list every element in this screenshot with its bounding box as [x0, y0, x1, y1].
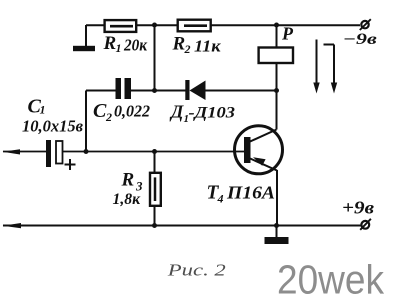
svg-text:R: R [121, 170, 135, 191]
svg-text:Р: Р [281, 24, 294, 44]
svg-text:0,022: 0,022 [114, 102, 150, 121]
svg-text:-Д103: -Д103 [189, 105, 236, 122]
svg-text:1: 1 [116, 41, 122, 55]
svg-text:R: R [172, 34, 186, 55]
svg-text:4: 4 [217, 192, 224, 206]
svg-text:Рис. 2: Рис. 2 [166, 261, 226, 280]
svg-text:1,8к: 1,8к [113, 191, 142, 208]
svg-text:R: R [103, 33, 117, 54]
svg-text:+9в: +9в [342, 198, 374, 218]
svg-text:20wek: 20wek [277, 257, 384, 303]
svg-text:20к: 20к [123, 36, 148, 55]
svg-text:11к: 11к [194, 37, 221, 56]
svg-text:П16А: П16А [226, 183, 275, 203]
svg-text:Д: Д [169, 102, 184, 122]
svg-text:С: С [93, 100, 107, 122]
svg-text:1: 1 [40, 103, 46, 117]
svg-text:−9в: −9в [343, 31, 377, 48]
svg-text:2: 2 [184, 42, 191, 56]
svg-text:10,0х15в: 10,0х15в [22, 117, 84, 136]
svg-text:2: 2 [105, 110, 112, 124]
